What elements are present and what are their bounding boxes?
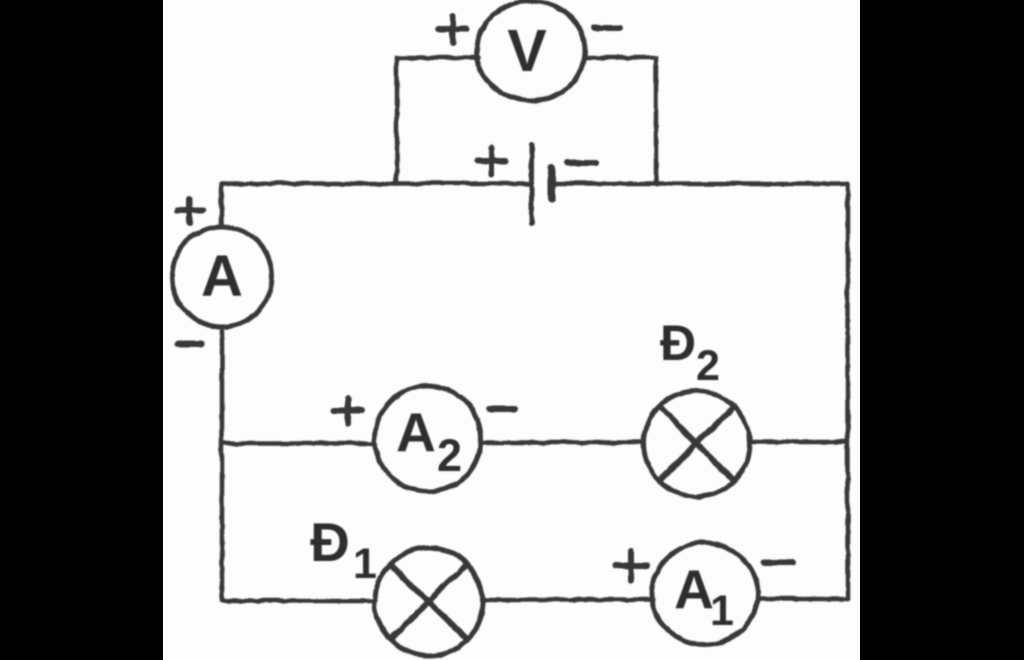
lamp D1 circle with cross: [374, 547, 482, 655]
wire: bottom branch from ammeter A1 to right corner: [757, 596, 847, 601]
minus sign of ammeter A1: [764, 559, 792, 565]
wire: left vertical from top corner down to ammeter A: [219, 183, 224, 226]
wire: top right segment from battery - plate to right corner: [551, 181, 847, 186]
wire: bottom branch from lamp D1 to ammeter A1: [481, 597, 652, 602]
plus sign of ammeter A2: [333, 397, 361, 423]
label A of ammeter A: [201, 244, 243, 309]
svg-text:1: 1: [353, 540, 377, 588]
wire: middle branch from lamp D2 to right vertical: [749, 439, 847, 444]
minus sign of ammeter A2: [488, 405, 514, 411]
plus sign of battery: [477, 147, 505, 174]
label D2 of lamp D2: [660, 315, 720, 390]
minus sign of ammeter A: [177, 340, 200, 347]
svg-text:2: 2: [437, 430, 462, 481]
svg-text:1: 1: [710, 587, 734, 635]
wire: voltmeter loop left vertical: [396, 57, 478, 183]
label A1 of ammeter A1: [674, 558, 734, 635]
plus sign of voltmeter V: [438, 15, 466, 42]
svg-text:2: 2: [696, 342, 720, 390]
plus sign of ammeter A1: [615, 550, 646, 580]
svg-text:Đ: Đ: [660, 315, 696, 371]
wire: top left segment from ammeter A corner to battery + plate: [221, 181, 531, 186]
wire: voltmeter loop right vertical: [583, 57, 655, 183]
ammeter A2 circle: [374, 385, 480, 491]
svg-text:A: A: [674, 558, 714, 620]
battery: short negative plate: [547, 167, 555, 198]
lamp D2 circle with cross: [643, 390, 749, 496]
svg-text:V: V: [507, 18, 546, 84]
ammeter A1 circle: [651, 542, 757, 644]
svg-text:A: A: [396, 401, 436, 463]
ammeter A circle: [171, 226, 271, 326]
wire: middle branch from left vertical to ammeter A2: [221, 441, 375, 446]
label D1 of lamp D1: [310, 511, 377, 588]
label V of voltmeter: [507, 18, 546, 84]
svg-text:Đ: Đ: [310, 511, 350, 573]
wire: middle branch from ammeter A2 to lamp D2: [480, 440, 643, 445]
voltmeter U=V circle: [476, 0, 584, 100]
wire: bottom branch from left corner to lamp D1: [221, 598, 375, 603]
label A2 of ammeter A2: [396, 401, 462, 481]
left black bar: [0, 0, 163, 660]
plus sign of ammeter A: [176, 198, 202, 223]
wire: left vertical from ammeter A down to bottom corner: [219, 326, 224, 600]
right black bar: [860, 0, 1024, 660]
minus sign of voltmeter V: [593, 24, 619, 30]
minus sign of battery: [567, 159, 595, 165]
wire: right vertical side: [845, 183, 850, 598]
battery: long positive plate: [529, 144, 534, 223]
svg-text:A: A: [201, 244, 243, 309]
